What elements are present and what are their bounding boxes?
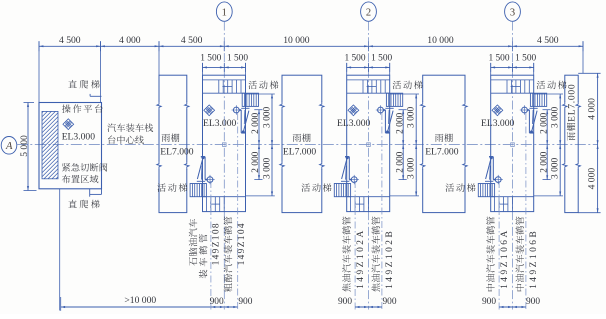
bay 1 label movable ladder top bbox=[248, 81, 278, 90]
bay 3 platform outline bbox=[491, 75, 534, 211]
bay 3 platform top stair bbox=[491, 80, 534, 93]
svg-text:1 500: 1 500 bbox=[488, 54, 509, 64]
bay 3 loading arm bottom bbox=[485, 156, 503, 184]
canopy 2 labels bbox=[283, 134, 317, 158]
bay 2 platform bottom stair bbox=[347, 197, 390, 212]
bay 3 dimension 1500 1500 bbox=[488, 54, 536, 75]
svg-text:2 000: 2 000 bbox=[539, 112, 549, 133]
bay 2 pipe labels bbox=[342, 217, 395, 292]
bay 2 loading arm bottom bbox=[341, 156, 359, 184]
svg-text:4 500: 4 500 bbox=[181, 35, 203, 46]
svg-text:149Z108: 149Z108 bbox=[212, 222, 222, 265]
bay 2 label movable ladder top bbox=[393, 81, 423, 90]
bay 2 platform top stair bbox=[347, 80, 390, 93]
bay 2 label movable ladder bottom bbox=[302, 183, 332, 192]
svg-text:2 000: 2 000 bbox=[395, 151, 405, 172]
svg-text:10 000: 10 000 bbox=[283, 35, 310, 46]
bay 1 center square marker bbox=[223, 143, 227, 147]
main horizontal centerline A bbox=[17, 144, 598, 146]
bay 1 label movable ladder bottom bbox=[157, 183, 187, 192]
svg-text:4 000: 4 000 bbox=[586, 168, 597, 190]
svg-text:3 000: 3 000 bbox=[407, 107, 417, 128]
bay 1 dimensions 2000 3000 bbox=[246, 94, 275, 196]
bay 1 elevation diamond bbox=[204, 105, 215, 116]
label straight ladder top bbox=[68, 80, 99, 89]
svg-text:>10 000: >10 000 bbox=[124, 295, 156, 306]
straight ladder symbol top bbox=[90, 94, 101, 96]
bay 2 movable ladder top bbox=[386, 93, 402, 106]
svg-text:EL3.000: EL3.000 bbox=[481, 118, 515, 129]
bay 3 label EL3.000 bbox=[481, 118, 515, 129]
svg-text:1 500: 1 500 bbox=[200, 54, 221, 64]
svg-text:900: 900 bbox=[238, 297, 252, 307]
bay 3 loading arm top bbox=[520, 105, 538, 133]
svg-text:EL7.000: EL7.000 bbox=[567, 84, 578, 122]
svg-text:3 000: 3 000 bbox=[551, 158, 561, 179]
bay 2 center square marker bbox=[367, 143, 371, 147]
svg-text:1 500: 1 500 bbox=[227, 54, 248, 64]
bay 3 pipe risers bbox=[499, 113, 526, 310]
axis circle A bbox=[1, 137, 17, 155]
svg-text:4 500: 4 500 bbox=[537, 35, 559, 46]
svg-text:149Z104: 149Z104 bbox=[237, 222, 247, 265]
canopy 3 labels bbox=[425, 134, 459, 158]
label emergency shutoff valve area bbox=[62, 163, 108, 183]
axis circle 3 bbox=[505, 2, 521, 21]
bottom dimension >10000 bbox=[61, 295, 238, 311]
label EL3.000 left bbox=[62, 131, 96, 142]
elevation diamond left bbox=[63, 119, 74, 130]
svg-text:3: 3 bbox=[510, 7, 515, 18]
bay 1 platform top stair bbox=[203, 80, 246, 93]
label truck loading platform centerline bbox=[107, 123, 153, 143]
svg-text:3 000: 3 000 bbox=[407, 158, 417, 179]
canopy 1 outline bbox=[157, 75, 189, 212]
svg-text:900: 900 bbox=[482, 297, 496, 307]
bay 3 dimension 900 900 bbox=[482, 297, 540, 308]
svg-text:1 500: 1 500 bbox=[371, 54, 392, 64]
svg-text:1 500: 1 500 bbox=[344, 54, 365, 64]
svg-text:149Z106B: 149Z106B bbox=[529, 229, 539, 289]
bay 3 centerline bbox=[512, 22, 514, 310]
straight ladder symbol bottom bbox=[90, 189, 102, 197]
svg-text:4 500: 4 500 bbox=[59, 35, 81, 46]
label straight ladder bottom bbox=[68, 200, 99, 209]
svg-text:3 000: 3 000 bbox=[551, 107, 561, 128]
svg-text:2 000: 2 000 bbox=[251, 112, 261, 133]
svg-text:EL7.000: EL7.000 bbox=[425, 147, 459, 158]
bay 1 dimension 1500 1500 bbox=[200, 54, 248, 75]
bay 3 pipe labels bbox=[486, 217, 539, 292]
svg-text:3 000: 3 000 bbox=[262, 158, 272, 179]
bay 2 loading arm top bbox=[376, 105, 394, 133]
svg-text:EL3.000: EL3.000 bbox=[203, 118, 237, 129]
bay 2 dimension 900 900 bbox=[338, 297, 397, 308]
bay 3 elevation diamond bbox=[492, 105, 503, 116]
svg-text:2: 2 bbox=[366, 7, 371, 18]
svg-text:149Z102B: 149Z102B bbox=[385, 229, 395, 289]
axis circle 2 bbox=[361, 2, 377, 21]
extension line below left platform bbox=[59, 189, 61, 311]
bay 1 movable ladder bottom bbox=[190, 184, 206, 197]
svg-text:149Z102A: 149Z102A bbox=[356, 228, 366, 289]
canopy 2 outline bbox=[280, 75, 324, 212]
label operation platform bbox=[62, 104, 102, 112]
bay 2 centerline bbox=[368, 22, 370, 310]
svg-text:900: 900 bbox=[210, 297, 224, 307]
canopy 1 labels bbox=[160, 134, 194, 158]
svg-text:900: 900 bbox=[338, 297, 352, 307]
bay 2 elevation diamond bbox=[348, 105, 359, 116]
canopy 4 vertical label bbox=[567, 84, 578, 141]
bay 1 platform outline bbox=[203, 75, 246, 211]
bay 3 label movable ladder top bbox=[537, 81, 567, 90]
bay 1 centerline bbox=[223, 22, 225, 310]
svg-text:A: A bbox=[5, 141, 13, 152]
svg-text:149Z106A: 149Z106A bbox=[500, 228, 510, 289]
canopy 3 outline bbox=[421, 75, 468, 212]
extension lines to top dimension bbox=[39, 41, 583, 102]
bay 2 label EL3.000 bbox=[337, 118, 371, 129]
svg-text:1 500: 1 500 bbox=[515, 54, 536, 64]
svg-text:5 000: 5 000 bbox=[19, 135, 30, 157]
svg-text:EL3.000: EL3.000 bbox=[337, 118, 371, 129]
right dimension 4000/4000 bbox=[578, 73, 600, 212]
svg-text:2 000: 2 000 bbox=[395, 112, 405, 133]
svg-text:1: 1 bbox=[222, 7, 227, 18]
bay 2 movable ladder bottom bbox=[334, 184, 350, 197]
top dimension line bbox=[39, 41, 583, 51]
bay 2 dimension 1500 1500 bbox=[344, 54, 392, 75]
bay 3 movable ladder top bbox=[530, 93, 546, 106]
bay 3 movable ladder bottom bbox=[478, 184, 494, 197]
bay 1 dimension 900 900 bbox=[210, 297, 253, 308]
bay 3 label movable ladder bottom bbox=[446, 183, 476, 192]
svg-text:EL3.000: EL3.000 bbox=[62, 131, 96, 142]
svg-text:2 000: 2 000 bbox=[251, 151, 261, 172]
svg-text:10 000: 10 000 bbox=[427, 35, 454, 46]
bay 3 dimensions 2000 3000 bbox=[534, 94, 563, 196]
canopy 4 outline bbox=[563, 75, 581, 212]
left platform hatched area bbox=[0, 111, 127, 178]
left platform outline bbox=[39, 103, 102, 189]
bay 2 dimensions 2000 3000 bbox=[390, 94, 419, 196]
svg-text:900: 900 bbox=[382, 297, 396, 307]
svg-text:EL7.000: EL7.000 bbox=[283, 147, 317, 158]
left platform 5000 dimension bbox=[19, 103, 37, 191]
svg-text:3 000: 3 000 bbox=[262, 107, 272, 128]
bay 1 label EL3.000 bbox=[203, 118, 237, 129]
bay 1 loading arm top bbox=[232, 105, 250, 133]
bay 1 loading arm bottom bbox=[197, 156, 215, 184]
svg-text:900: 900 bbox=[526, 297, 540, 307]
svg-text:2 000: 2 000 bbox=[539, 151, 549, 172]
svg-text:4 000: 4 000 bbox=[586, 98, 597, 120]
svg-text:4 000: 4 000 bbox=[119, 35, 141, 46]
bay 1 pipe risers bbox=[211, 113, 238, 310]
svg-text:EL7.000: EL7.000 bbox=[160, 147, 194, 158]
top dimension labels bbox=[59, 35, 559, 46]
bay 3 center square marker bbox=[511, 143, 515, 147]
bay 1 movable ladder top bbox=[242, 93, 258, 106]
axis circle 1 bbox=[216, 2, 232, 21]
bay 2 pipe risers bbox=[355, 113, 382, 310]
bay 1 platform bottom stair bbox=[203, 197, 246, 212]
bay 2 platform outline bbox=[347, 75, 390, 211]
bay 1 pipe labels bbox=[189, 217, 247, 292]
bay 3 platform bottom stair bbox=[491, 197, 534, 212]
